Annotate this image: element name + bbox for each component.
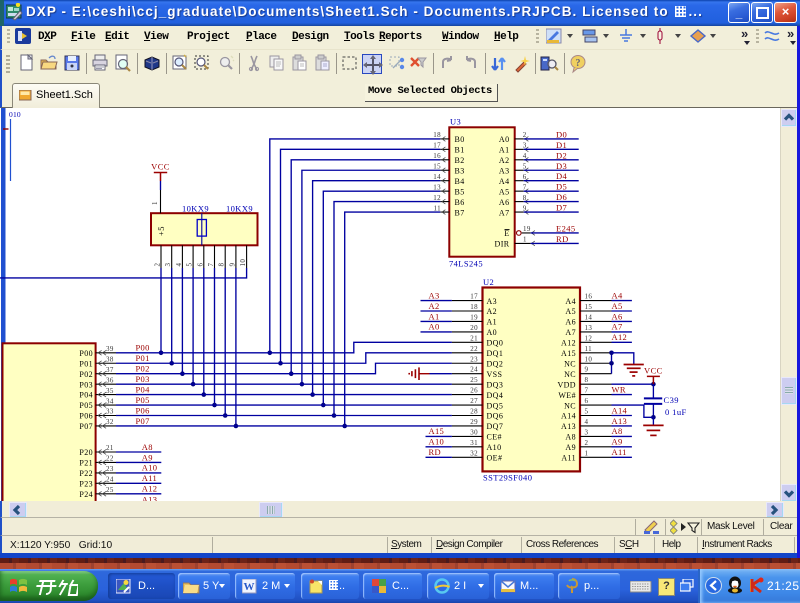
svg-text:A13: A13 bbox=[561, 422, 576, 431]
svg-text:P00: P00 bbox=[79, 349, 93, 358]
U2 pin 23 DQ2 bbox=[452, 355, 503, 368]
U2 pin 4 A13 bbox=[561, 418, 611, 431]
svg-text:P02: P02 bbox=[79, 370, 93, 379]
svg-text:DQ4: DQ4 bbox=[487, 391, 504, 400]
U3 pin 17 B1 bbox=[433, 142, 464, 155]
svg-text:A6: A6 bbox=[565, 318, 576, 327]
svg-text:A13: A13 bbox=[612, 416, 628, 426]
svg-text:25: 25 bbox=[470, 376, 478, 384]
svg-text:32: 32 bbox=[470, 449, 478, 457]
svg-text:A5: A5 bbox=[565, 307, 576, 316]
svg-text:B3: B3 bbox=[455, 166, 465, 175]
resistor network RP1 10KX9 body bbox=[151, 213, 258, 245]
svg-text:A12: A12 bbox=[142, 484, 158, 494]
wire vertical bus P06 up to U3 B6 bbox=[334, 202, 440, 416]
svg-text:A14: A14 bbox=[612, 405, 628, 415]
wire net A10 from MCU P22 bbox=[116, 472, 161, 474]
MCU pin 23 P22 bbox=[79, 465, 116, 478]
wire U2 VDD pin 8 to VCC node bbox=[612, 383, 654, 385]
junction P06/U3 riser bbox=[332, 413, 337, 418]
junction RP1/P06 bbox=[223, 413, 228, 418]
svg-text:A9: A9 bbox=[565, 443, 576, 452]
MCU pin 37 P02 bbox=[79, 366, 116, 379]
svg-text:P21: P21 bbox=[79, 459, 93, 468]
wire RP1 pin 4 down to P02 net bbox=[181, 268, 183, 374]
svg-text:A5: A5 bbox=[612, 301, 623, 311]
svg-text:2: 2 bbox=[154, 263, 162, 267]
svg-text:VDD: VDD bbox=[557, 380, 576, 389]
svg-text:P06: P06 bbox=[79, 412, 93, 421]
junction C39/NC-wire/ground bbox=[651, 415, 656, 420]
flash memory U2 SST29SF040 body bbox=[483, 288, 581, 472]
svg-text:2: 2 bbox=[585, 439, 589, 447]
junction RP1/P02 bbox=[180, 371, 185, 376]
wire RP1 pin 10 down and left to sheet edge bbox=[0, 268, 247, 278]
U3 pin 2 A0 bbox=[499, 131, 528, 144]
svg-text:23: 23 bbox=[106, 465, 114, 473]
wire net A13 from U2 pin 4 bbox=[612, 425, 632, 427]
svg-text:D2: D2 bbox=[556, 150, 567, 160]
svg-text:3: 3 bbox=[585, 428, 589, 436]
svg-text:NC: NC bbox=[564, 359, 576, 368]
svg-text:74LS245: 74LS245 bbox=[449, 259, 483, 269]
wire U3 A5 to net D5 bbox=[524, 190, 579, 192]
U3 pin 15 B3 bbox=[433, 162, 464, 175]
U2 pin 19 A1 bbox=[452, 313, 497, 326]
wire net A9 from U2 pin 2 bbox=[612, 446, 632, 448]
junction VDD/VCC/C39 bbox=[651, 382, 656, 387]
svg-text:37: 37 bbox=[106, 366, 114, 374]
wire to earth ground from pin 11 row bbox=[612, 353, 634, 365]
title block fragment top-left bbox=[3, 110, 21, 181]
svg-text:26: 26 bbox=[470, 387, 478, 395]
U3 pin 12 B6 bbox=[433, 194, 464, 207]
svg-text:P04: P04 bbox=[136, 384, 151, 394]
wire net P07 from MCU to U2 DQ7 bbox=[116, 425, 452, 427]
wire net A11 from U2 pin 1 bbox=[612, 456, 632, 458]
junction at pin 11 bbox=[609, 351, 614, 356]
VCC power symbol right of U2 bbox=[644, 365, 663, 384]
wire net A9 from MCU P21 bbox=[116, 461, 161, 463]
svg-text:14: 14 bbox=[585, 313, 593, 321]
wire RP1 pin 5 down to P03 net bbox=[192, 268, 194, 384]
svg-text:19: 19 bbox=[470, 313, 478, 321]
U3 pin 9 A7 bbox=[499, 204, 528, 217]
svg-text:A1: A1 bbox=[499, 146, 510, 155]
svg-text:RD: RD bbox=[556, 234, 569, 244]
U2 pin 18 A2 bbox=[452, 303, 497, 316]
wire VCC node down to capacitor C39 bbox=[652, 384, 654, 397]
svg-text:A8: A8 bbox=[565, 433, 576, 442]
svg-text:A7: A7 bbox=[612, 322, 623, 332]
svg-text:3: 3 bbox=[164, 263, 172, 267]
svg-text:25: 25 bbox=[106, 486, 114, 494]
wire U3 A4 to net D4 bbox=[524, 180, 579, 182]
svg-text:A15: A15 bbox=[561, 349, 576, 358]
svg-text:A6: A6 bbox=[499, 198, 510, 207]
svg-text:10KX9: 10KX9 bbox=[182, 204, 209, 214]
wire net RD to U2 pin 32 bbox=[426, 456, 452, 458]
svg-text:A10: A10 bbox=[429, 437, 445, 447]
svg-text:?: ? bbox=[576, 58, 581, 69]
svg-text:9: 9 bbox=[228, 263, 236, 267]
svg-text:A10: A10 bbox=[487, 443, 502, 452]
wire net A2 to U2 pin 18 bbox=[421, 310, 452, 312]
U2 pin 26 DQ4 bbox=[452, 387, 503, 400]
wire U3 A3 to net D3 bbox=[524, 169, 579, 171]
U3 pin 6 A4 bbox=[499, 173, 528, 186]
U2 pin 16 A4 bbox=[565, 293, 611, 306]
svg-text:DQ5: DQ5 bbox=[487, 401, 504, 410]
wire RP1 pin 7 down to P05 net bbox=[214, 268, 216, 405]
svg-text:P03: P03 bbox=[79, 380, 93, 389]
U3 pin 14 B4 bbox=[433, 173, 464, 186]
svg-text:10KX9: 10KX9 bbox=[226, 204, 253, 214]
U2 pin 8 VDD bbox=[557, 376, 611, 389]
svg-text:17: 17 bbox=[433, 142, 441, 150]
MCU pin 33 P06 bbox=[79, 408, 116, 421]
svg-text:A11: A11 bbox=[561, 454, 576, 463]
svg-text:8: 8 bbox=[218, 263, 226, 267]
svg-text:P24: P24 bbox=[79, 490, 93, 499]
svg-text:P20: P20 bbox=[79, 448, 93, 457]
svg-text:38: 38 bbox=[106, 355, 114, 363]
RP1 pin 8 (bottom) bbox=[218, 245, 226, 268]
wire RP1 pin 2 down to P00 net bbox=[160, 268, 162, 353]
svg-text:7: 7 bbox=[523, 183, 527, 191]
MCU pin 34 P05 bbox=[79, 397, 116, 410]
svg-text:A7: A7 bbox=[565, 328, 576, 337]
svg-text:U2: U2 bbox=[483, 277, 494, 287]
svg-text:P22: P22 bbox=[79, 469, 93, 478]
junction P05/U3 riser bbox=[321, 403, 326, 408]
U3 pin 3 A1 bbox=[499, 142, 528, 155]
wire net A1 to U2 pin 19 bbox=[421, 320, 452, 322]
svg-text:A0: A0 bbox=[499, 135, 510, 144]
svg-text:A9: A9 bbox=[612, 437, 623, 447]
wire net A4 from U2 pin 16 bbox=[612, 300, 632, 302]
svg-text:23: 23 bbox=[470, 355, 478, 363]
svg-text:28: 28 bbox=[470, 408, 478, 416]
wire U3 E to net E245 bbox=[531, 232, 579, 234]
svg-text:B7: B7 bbox=[455, 208, 465, 217]
svg-text:VCC: VCC bbox=[644, 365, 663, 375]
svg-text:10: 10 bbox=[239, 259, 247, 267]
wire net A6 from U2 pin 14 bbox=[612, 320, 632, 322]
svg-text:B4: B4 bbox=[455, 177, 465, 186]
svg-text:A15: A15 bbox=[429, 426, 445, 436]
wire RP1 pin 9 down to P07 net bbox=[235, 268, 237, 426]
RP1 pin 4 (bottom) bbox=[175, 245, 183, 268]
wire net A12 from MCU P24 bbox=[116, 493, 161, 495]
svg-text:D7: D7 bbox=[556, 203, 567, 213]
wire ground node down to earth ground bbox=[652, 417, 654, 425]
svg-text:+5: +5 bbox=[156, 226, 166, 236]
svg-text:U3: U3 bbox=[450, 117, 461, 127]
wire C39 bottom to ground node bbox=[652, 404, 654, 417]
svg-text:NC: NC bbox=[564, 370, 576, 379]
svg-text:4: 4 bbox=[585, 418, 589, 426]
junction RP1/P04 bbox=[202, 392, 207, 397]
svg-text:20: 20 bbox=[470, 324, 478, 332]
svg-text:P05: P05 bbox=[79, 401, 93, 410]
U2 pin 31 A10 bbox=[452, 439, 502, 452]
svg-text:A2: A2 bbox=[487, 307, 498, 316]
svg-text:P02: P02 bbox=[136, 364, 150, 374]
svg-text:DQ2: DQ2 bbox=[487, 359, 504, 368]
junction P02/U3 riser bbox=[289, 371, 294, 376]
U3 pin 8 A6 bbox=[499, 194, 528, 207]
RP1 pin 3 (bottom) bbox=[164, 245, 172, 268]
svg-text:35: 35 bbox=[106, 387, 114, 395]
svg-text:17: 17 bbox=[470, 293, 478, 301]
svg-text:15: 15 bbox=[433, 162, 441, 170]
svg-text:DQ6: DQ6 bbox=[487, 412, 504, 421]
wire vertical bus P07 up to U3 B7 bbox=[345, 212, 441, 426]
svg-text:DQ3: DQ3 bbox=[487, 380, 504, 389]
wire net A5 from U2 pin 15 bbox=[612, 310, 632, 312]
svg-text:D1: D1 bbox=[556, 140, 567, 150]
svg-text:D4: D4 bbox=[556, 171, 568, 181]
U2 pin 24 VSS bbox=[452, 366, 502, 379]
svg-text:A2: A2 bbox=[429, 301, 440, 311]
wire U3 A1 to net D1 bbox=[524, 148, 579, 150]
MCU pin 22 P21 bbox=[79, 455, 116, 468]
wire net A8 from MCU P20 bbox=[116, 451, 161, 453]
svg-text:P01: P01 bbox=[79, 359, 93, 368]
svg-text:A0: A0 bbox=[487, 328, 498, 337]
svg-text:7: 7 bbox=[207, 263, 215, 267]
wire vertical bus P01 up to U3 B1 bbox=[281, 149, 441, 363]
svg-text:NC: NC bbox=[564, 401, 576, 410]
svg-text:1: 1 bbox=[151, 201, 159, 205]
svg-text:P04: P04 bbox=[79, 391, 93, 400]
svg-text:34: 34 bbox=[106, 397, 114, 405]
U2 pin 28 DQ6 bbox=[452, 408, 503, 421]
U2 pin 1 A11 bbox=[561, 449, 611, 462]
U3 pin 7 A5 bbox=[499, 183, 528, 196]
svg-text:A8: A8 bbox=[612, 426, 623, 436]
svg-text:9: 9 bbox=[585, 366, 589, 374]
wire net P06 from MCU to U2 DQ6 bbox=[116, 415, 452, 417]
svg-text:P06: P06 bbox=[136, 405, 150, 415]
U3 pin 19 E (enable, active low) with bubble bbox=[504, 225, 535, 238]
wire net WR from U2 pin 7 bbox=[612, 394, 632, 396]
U3 pin 4 A2 bbox=[499, 152, 528, 165]
svg-text:B6: B6 bbox=[455, 198, 465, 207]
RP1 pin 9 (bottom) bbox=[228, 245, 236, 268]
svg-text:A5: A5 bbox=[499, 187, 510, 196]
U2 pin 32 OE# bbox=[452, 449, 502, 462]
svg-text:7: 7 bbox=[585, 387, 589, 395]
wire net A10 to U2 pin 31 bbox=[426, 446, 452, 448]
svg-text:B2: B2 bbox=[455, 156, 465, 165]
svg-text:E245: E245 bbox=[556, 223, 576, 233]
svg-text:RD: RD bbox=[429, 447, 441, 457]
svg-text:8: 8 bbox=[523, 194, 527, 202]
svg-text:A2: A2 bbox=[499, 156, 510, 165]
U2 pin 5 A14 bbox=[561, 408, 611, 421]
RP1 pin 6 (bottom) bbox=[196, 245, 204, 268]
MCU U1 body (partial, left edge) bbox=[3, 343, 96, 503]
signal ground symbol (fading bars) at U2 VSS bbox=[409, 367, 429, 380]
wire net A8 from U2 pin 3 bbox=[612, 435, 632, 437]
U3 pin 1 DIR bbox=[495, 236, 535, 249]
RP1 pin 2 (bottom) bbox=[154, 245, 162, 268]
junction P01/U3 riser bbox=[278, 361, 283, 366]
svg-text:15: 15 bbox=[585, 303, 593, 311]
wire U2 pins 11/10/9 tie (A15,NC,NC) bbox=[611, 353, 613, 374]
wire net A15 to U2 pin 30 bbox=[426, 435, 452, 437]
svg-text:24: 24 bbox=[106, 476, 114, 484]
svg-text:13: 13 bbox=[433, 183, 441, 191]
svg-text:A3: A3 bbox=[487, 297, 498, 306]
op-amp, er, buffer U3 74LS245 body bbox=[449, 127, 514, 256]
RP1 pin 7 (bottom) bbox=[207, 245, 215, 268]
wire U3 A7 to net D7 bbox=[524, 211, 579, 213]
MCU pin 25 P24 bbox=[79, 486, 116, 499]
svg-text:12: 12 bbox=[585, 334, 593, 342]
svg-text:A12: A12 bbox=[561, 339, 576, 348]
svg-text:0 1uF: 0 1uF bbox=[665, 407, 687, 417]
wire RP1 pin 8 down to P06 net bbox=[224, 268, 226, 416]
svg-text:VCC: VCC bbox=[151, 162, 170, 172]
svg-text:SST29SF040: SST29SF040 bbox=[483, 473, 532, 483]
svg-text:B5: B5 bbox=[455, 187, 465, 196]
svg-text:13: 13 bbox=[585, 324, 593, 332]
svg-text:A11: A11 bbox=[612, 447, 627, 457]
svg-text:6: 6 bbox=[523, 173, 527, 181]
U2 pin 14 A6 bbox=[565, 313, 611, 326]
wire net A14 from U2 pin 5 bbox=[612, 415, 632, 417]
svg-text:21: 21 bbox=[470, 334, 478, 342]
resistor glyph inside RP1 bbox=[197, 213, 206, 245]
U2 pin 9 NC bbox=[564, 366, 611, 379]
svg-text:A1: A1 bbox=[429, 311, 440, 321]
U2 pin 25 DQ3 bbox=[452, 376, 503, 389]
wire vertical bus P05 up to U3 B5 bbox=[323, 191, 440, 405]
svg-text:16: 16 bbox=[433, 152, 441, 160]
sheet border left band bbox=[1, 108, 6, 501]
U2 pin 12 A12 bbox=[561, 334, 611, 347]
svg-text:36: 36 bbox=[106, 376, 114, 384]
junction P07/U3 riser bbox=[342, 424, 347, 429]
wire U2 VSS pin 24 to signal ground bbox=[430, 373, 452, 375]
svg-text:A3: A3 bbox=[429, 290, 440, 300]
svg-text:P03: P03 bbox=[136, 374, 150, 384]
wire net A7 from U2 pin 13 bbox=[612, 331, 632, 333]
svg-text:1: 1 bbox=[585, 449, 589, 457]
wire RP1 pin 3 down to P01 net bbox=[171, 268, 173, 363]
svg-text:WR: WR bbox=[612, 384, 626, 394]
svg-text:A7: A7 bbox=[499, 208, 510, 217]
wire net A0 to U2 pin 20 bbox=[421, 331, 452, 333]
svg-text:32: 32 bbox=[106, 418, 114, 426]
wire net P01 from MCU to U2 DQ1 bbox=[116, 353, 452, 363]
svg-text:19: 19 bbox=[523, 225, 531, 233]
svg-text:29: 29 bbox=[470, 418, 478, 426]
svg-text:2: 2 bbox=[523, 131, 527, 139]
wire net A12 from U2 pin 12 bbox=[612, 341, 632, 343]
svg-text:DQ0: DQ0 bbox=[487, 339, 504, 348]
junction RP1/P07 bbox=[234, 424, 239, 429]
U2 pin 2 A9 bbox=[565, 439, 611, 452]
earth ground symbol under C39 bbox=[643, 425, 663, 435]
RP1 pin 10 (bottom) bbox=[239, 245, 247, 268]
svg-text:OE#: OE# bbox=[487, 454, 503, 463]
svg-text:DIR: DIR bbox=[495, 240, 510, 249]
RP1 pin 5 (bottom) bbox=[186, 245, 194, 268]
wire net P05 from MCU to U2 DQ5 bbox=[116, 404, 452, 406]
svg-text:18: 18 bbox=[433, 131, 441, 139]
wire net P02 from MCU to U2 DQ2 bbox=[116, 363, 452, 373]
svg-text:5: 5 bbox=[585, 408, 589, 416]
svg-text:33: 33 bbox=[106, 408, 114, 416]
svg-text:B0: B0 bbox=[455, 135, 465, 144]
svg-text:A0: A0 bbox=[429, 322, 440, 332]
wire net P03 from MCU to U2 DQ3 bbox=[116, 383, 452, 385]
U2 pin 13 A7 bbox=[565, 324, 611, 337]
svg-text:3: 3 bbox=[523, 142, 527, 150]
RP1 pin 1 (top) bbox=[151, 190, 161, 213]
svg-text:D5: D5 bbox=[556, 182, 567, 192]
svg-text:P00: P00 bbox=[136, 343, 150, 353]
svg-text:A1: A1 bbox=[487, 318, 498, 327]
svg-text:W: W bbox=[244, 581, 255, 593]
MCU pin 24 P23 bbox=[79, 476, 116, 489]
svg-text:A4: A4 bbox=[565, 297, 576, 306]
U3 pin 16 B2 bbox=[433, 152, 464, 165]
svg-text:D0: D0 bbox=[556, 129, 567, 139]
junction RP1/P03 bbox=[191, 382, 196, 387]
svg-text:C39: C39 bbox=[664, 395, 679, 405]
svg-text:10: 10 bbox=[585, 355, 593, 363]
svg-text:A4: A4 bbox=[499, 177, 510, 186]
svg-text:5: 5 bbox=[186, 263, 194, 267]
svg-text:6: 6 bbox=[585, 397, 589, 405]
junction at pin 10 bbox=[609, 361, 614, 366]
wire U3 A6 to net D6 bbox=[524, 201, 579, 203]
earth ground symbol near U2 pins 11/10/9 bbox=[624, 365, 644, 376]
svg-text:14: 14 bbox=[433, 173, 441, 181]
svg-text:A9: A9 bbox=[142, 452, 153, 462]
U3 pin 13 B5 bbox=[433, 183, 464, 196]
wire U3 DIR to net RD bbox=[531, 242, 579, 244]
wire vertical bus P04 up to U3 B4 bbox=[313, 181, 441, 395]
svg-text:VSS: VSS bbox=[487, 370, 503, 379]
U2 pin 21 DQ0 bbox=[452, 334, 503, 347]
svg-text:6: 6 bbox=[196, 263, 204, 267]
wire net A11 from MCU P23 bbox=[116, 482, 161, 484]
svg-text:P05: P05 bbox=[136, 395, 150, 405]
wire net A3 to U2 pin 17 bbox=[421, 300, 452, 302]
U2 pin 22 DQ1 bbox=[452, 345, 503, 358]
U2 pin 11 A15 bbox=[561, 345, 611, 358]
svg-text:A14: A14 bbox=[561, 412, 576, 421]
wire vertical bus P02 up to U3 B2 bbox=[291, 160, 440, 374]
MCU pin 36 P03 bbox=[79, 376, 116, 389]
svg-text:4: 4 bbox=[175, 263, 183, 267]
wire VCC to RP1 pin 1 bbox=[160, 181, 162, 190]
svg-text:4: 4 bbox=[523, 152, 527, 160]
MCU pin 39 P00 bbox=[79, 345, 116, 358]
wire U3 A0 to net D0 bbox=[524, 138, 579, 140]
U2 pin 20 A0 bbox=[452, 324, 497, 337]
junction P03/U3 riser bbox=[300, 382, 305, 387]
MCU pin 35 P04 bbox=[79, 387, 116, 400]
wire U2 NC pin 6 to ground node bbox=[612, 405, 654, 417]
U2 pin 30 CE# bbox=[452, 428, 502, 441]
